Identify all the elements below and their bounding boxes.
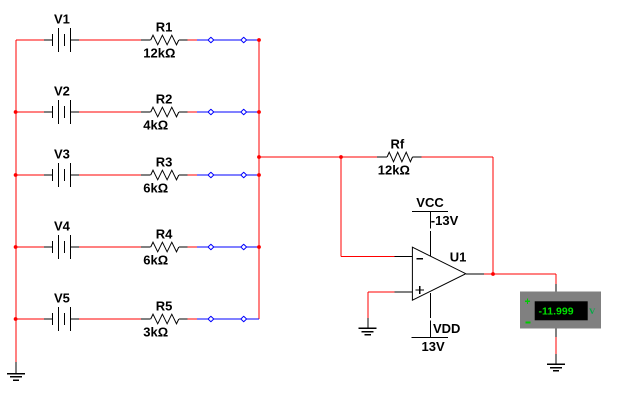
- svg-text:V5: V5: [54, 291, 70, 306]
- svg-text:R4: R4: [156, 226, 173, 241]
- svg-text:-13V: -13V: [431, 213, 459, 228]
- svg-text:R1: R1: [156, 19, 173, 34]
- svg-text:R3: R3: [156, 154, 173, 169]
- svg-text:12kΩ: 12kΩ: [143, 45, 175, 60]
- svg-text:V3: V3: [54, 147, 70, 162]
- svg-text:12kΩ: 12kΩ: [378, 163, 410, 178]
- svg-text:U1: U1: [450, 249, 467, 264]
- svg-text:R2: R2: [156, 91, 173, 106]
- svg-text:-11.999: -11.999: [539, 306, 574, 318]
- svg-text:4kΩ: 4kΩ: [143, 117, 168, 132]
- svg-text:6kΩ: 6kΩ: [143, 180, 168, 195]
- svg-text:R5: R5: [156, 298, 173, 313]
- svg-text:Rf: Rf: [391, 136, 405, 151]
- svg-text:6kΩ: 6kΩ: [143, 252, 168, 267]
- svg-text:V4: V4: [54, 219, 71, 234]
- svg-text:VCC: VCC: [416, 195, 444, 210]
- svg-text:V1: V1: [54, 12, 70, 27]
- svg-text:13V: 13V: [422, 339, 445, 354]
- svg-text:V2: V2: [54, 84, 70, 99]
- svg-text:VDD: VDD: [433, 321, 460, 336]
- svg-text:V: V: [589, 306, 596, 316]
- svg-text:3kΩ: 3kΩ: [143, 324, 168, 339]
